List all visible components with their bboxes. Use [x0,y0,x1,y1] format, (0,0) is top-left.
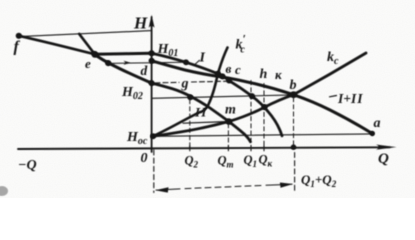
dashed boundary below origin [153,150,155,193]
curve k_c [153,53,366,136]
svg-text:b: b [290,78,297,93]
point on I at d level [183,59,189,65]
wire: curve II extension f-e [19,36,95,55]
dashed vertical below b [293,98,295,147]
svg-text:в: в [226,61,232,76]
thin line into m [183,122,229,124]
svg-text:h: h [260,67,268,82]
svg-text:e: e [85,56,91,71]
point H01 [149,50,155,56]
point m [226,118,233,125]
point Hoc [150,133,156,139]
svg-text:I+II: I+II [337,91,363,106]
point a [370,131,375,136]
curve k_c' [153,48,228,137]
point e2 [105,60,111,66]
dashed vertical Q2 [189,100,191,150]
Q axis arrowhead [376,145,397,150]
svg-text:к: к [275,67,282,82]
point e [91,51,98,58]
thin line L1 from f to axis [19,31,152,37]
wire: steep branch from L1 to e [79,34,95,54]
thin horizontal line through b [152,95,294,98]
svg-text:0: 0 [141,151,148,166]
tick Q2 [189,146,191,151]
svg-text:I: I [199,51,206,66]
svg-text:II: II [194,105,207,120]
tick Q1 [250,146,252,151]
point d [149,58,155,64]
leader tick for label I+II [330,96,337,97]
curve I+II [152,61,373,134]
Q axis [18,147,390,149]
thin horizontal line Hoc to a [153,134,372,136]
thin construction line e2-d with arrow [108,62,186,63]
svg-text:Q: Q [378,151,389,167]
wire: curve II extension e-e2-H02 [95,54,152,83]
point Q2 on II [187,94,193,100]
point f [16,33,22,39]
svg-text:−Q: −Q [18,158,37,173]
svg-text:c: c [235,62,241,77]
dashed vertical Q1 [250,81,252,151]
tick Qm [227,146,229,151]
point h [249,93,255,99]
dashed line at H02 level to g [155,81,227,83]
svg-text:а: а [374,116,381,131]
point b [290,91,297,98]
point k [262,104,268,110]
tick Qk [263,146,265,151]
dashed vertical Qm [227,124,229,151]
dimension line Q1+Q2 [156,184,292,190]
H axis [151,17,153,152]
svg-text:d: d [141,63,148,78]
point v (cyrillic) [215,71,221,77]
svg-text:Q1+Q2: Q1+Q2 [301,172,337,189]
leader tick for label I [195,60,200,65]
H axis arrowhead [149,15,155,28]
dashed vertical Qk [263,84,265,151]
scan smudge bottom-left [0,186,8,196]
svg-text:g: g [181,77,189,92]
dashed boundary below b [294,153,296,191]
point c [220,73,226,79]
wire: curve I extension e-H01 [95,53,152,54]
point H02 [149,80,155,86]
svg-text:H: H [133,14,148,33]
point on Q axis below b [291,144,297,150]
curve I [152,53,282,136]
point g [226,78,232,84]
svg-text:m: m [225,103,236,118]
curve II [152,83,251,142]
